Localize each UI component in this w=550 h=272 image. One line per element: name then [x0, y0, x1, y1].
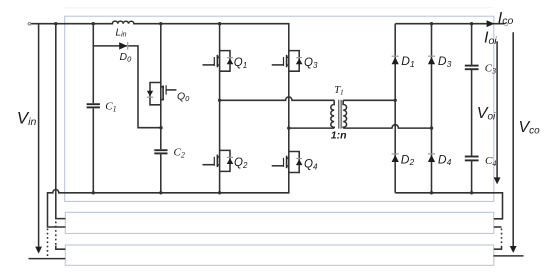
svg-text:T1: T1: [334, 85, 344, 97]
svg-text:1:n: 1:n: [331, 130, 347, 142]
